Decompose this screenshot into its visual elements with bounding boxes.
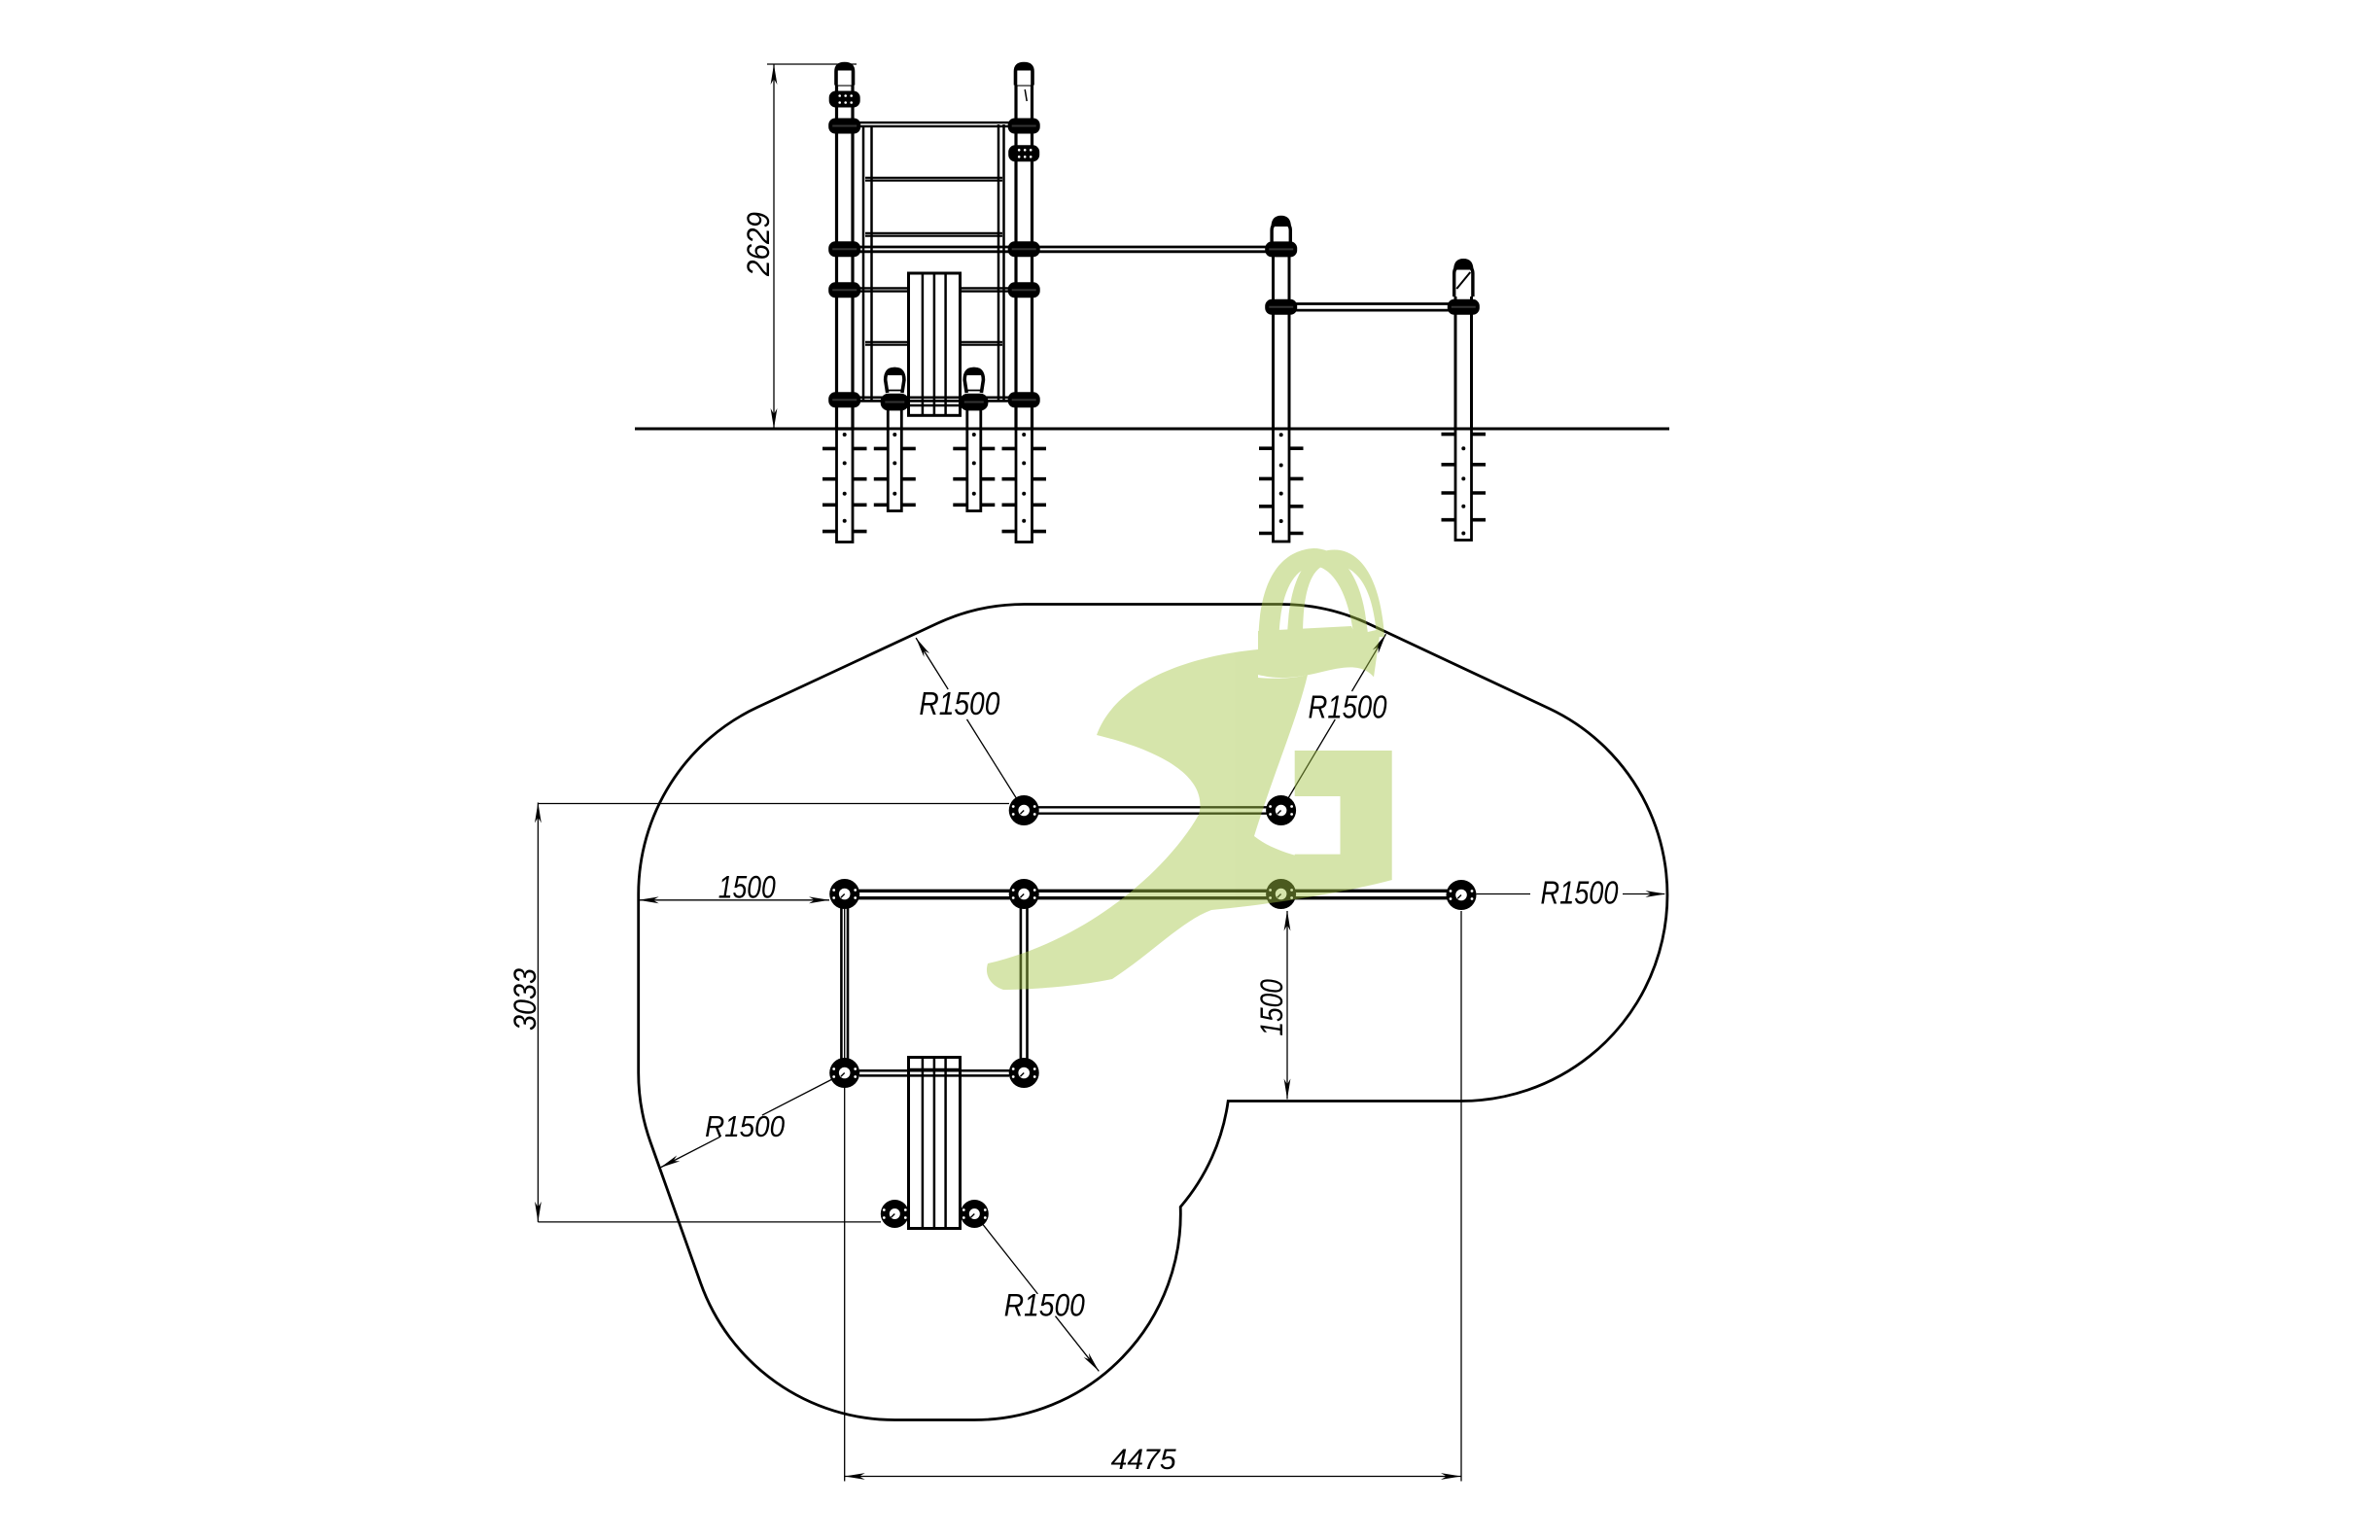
svg-text:2629: 2629 xyxy=(741,212,776,277)
safety zone cloud outline xyxy=(639,605,1667,1420)
low bar xyxy=(1289,302,1455,305)
tower right side bar plan xyxy=(1020,904,1023,1065)
buried post left tower xyxy=(822,447,867,451)
svg-text:1500: 1500 xyxy=(718,869,776,904)
leader R1500 top-right xyxy=(1281,719,1336,811)
handle post plan 1 xyxy=(881,1200,909,1228)
svg-text:R1500: R1500 xyxy=(1309,689,1388,725)
buried post handle 1 xyxy=(874,447,916,451)
post mid row 1 xyxy=(829,879,859,909)
tower mid rung bar xyxy=(853,287,1016,289)
post top row left xyxy=(1009,795,1039,825)
svg-text:R1500: R1500 xyxy=(919,685,1000,721)
leader R1500 right xyxy=(1477,893,1531,895)
buried post middle xyxy=(1259,446,1304,450)
tower bottom bar plan xyxy=(859,1069,1009,1072)
handle grip xyxy=(964,369,983,394)
buried post right tower xyxy=(1002,447,1047,451)
leader R1500 top-left xyxy=(916,638,948,689)
handle post plan 2 xyxy=(961,1200,989,1228)
right post xyxy=(1455,267,1472,429)
tower top bar xyxy=(853,122,1016,123)
dim 4475 xyxy=(844,909,846,1482)
handle post xyxy=(965,410,968,429)
tower bottom bar xyxy=(853,396,1009,399)
svg-text:4475: 4475 xyxy=(1111,1444,1176,1476)
svg-text:1500: 1500 xyxy=(1254,979,1289,1036)
tower left side bar plan xyxy=(840,904,843,1065)
tower right post xyxy=(1016,85,1032,429)
ladder rungs xyxy=(865,177,1002,179)
handle post xyxy=(887,410,890,429)
post mid row 2 xyxy=(1009,879,1039,909)
post bottom row 1 xyxy=(829,1058,859,1088)
middle post xyxy=(1274,241,1290,429)
buried post right xyxy=(1442,433,1487,437)
post mid row 3 xyxy=(1266,879,1296,909)
buried post handle 2 xyxy=(953,447,995,451)
post top row right xyxy=(1266,795,1296,825)
svg-text:R1500: R1500 xyxy=(705,1109,785,1143)
seat back elevation xyxy=(909,273,961,415)
post bottom row 2 xyxy=(1009,1058,1039,1088)
tower left post xyxy=(837,85,854,429)
clamps left post xyxy=(829,91,860,108)
ground line xyxy=(635,428,1669,431)
dim 3033 xyxy=(538,803,1009,805)
high bar (long, to middle post) xyxy=(853,246,1274,249)
post mid row 4 xyxy=(1447,880,1477,910)
handle grip xyxy=(886,369,904,394)
svg-text:3033: 3033 xyxy=(507,968,542,1031)
leader R1500 bottom xyxy=(974,1214,1037,1294)
clamps right post xyxy=(1008,119,1040,134)
dimension 2629 xyxy=(767,63,857,65)
seat back plan xyxy=(909,1058,961,1229)
handle clamp xyxy=(881,394,909,411)
handle clamp xyxy=(960,394,988,411)
svg-text:R1500: R1500 xyxy=(1004,1288,1085,1323)
watermark logo xyxy=(987,548,1392,990)
ladder rails xyxy=(862,126,865,401)
high bar plan xyxy=(1024,806,1280,808)
dim 1500 top-left xyxy=(639,899,829,901)
middle row bar plan xyxy=(845,890,1461,892)
dim 1500 vertical middle xyxy=(1286,911,1288,1100)
svg-text:R1500: R1500 xyxy=(1541,875,1620,911)
leader R1500 left xyxy=(762,1073,845,1116)
